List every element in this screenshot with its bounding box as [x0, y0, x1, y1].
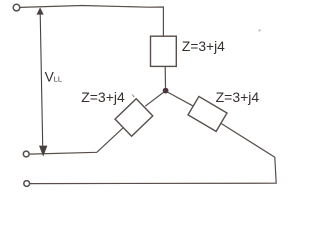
terminal B (middle-left) [23, 151, 29, 157]
svg-text:VLL: VLL [45, 70, 62, 85]
wire: Z1 bottom to neutral node [164, 66, 166, 87]
impedance Z3 (right rotated box) [188, 96, 227, 131]
impedance Z2 (left rotated box) [115, 99, 153, 137]
svg-text:Z=3+j4: Z=3+j4 [216, 89, 260, 105]
terminal C (bottom-left) [24, 181, 30, 187]
scan speck [259, 29, 261, 31]
wire: node to Z2 (left branch) [145, 92, 164, 106]
Vll measurement arrow (double headed) [37, 7, 48, 156]
stray mark above left box [132, 95, 134, 98]
wire: Z2 to junction and terminal B [29, 128, 123, 155]
node N (star point) [163, 88, 169, 94]
svg-text:Z=3+j4: Z=3+j4 [81, 89, 125, 105]
terminal A (top-left) [13, 4, 20, 11]
wire: node to Z3 (right branch) [167, 92, 192, 106]
impedance Z1 (top box) [151, 36, 177, 66]
wire: Z3 to bottom right corner, down and left to terminal C [30, 123, 277, 183]
wire: terminal A to top corner [20, 6, 163, 37]
svg-text:Z=3+j4: Z=3+j4 [182, 39, 225, 54]
